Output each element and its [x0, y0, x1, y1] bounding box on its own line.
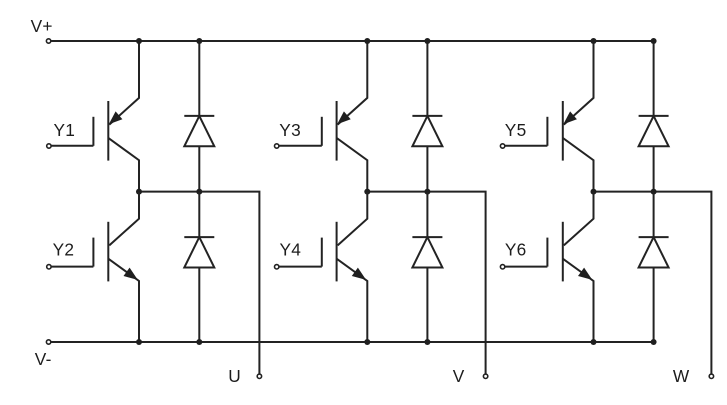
- terminal output W: [709, 374, 713, 378]
- node: V+ junction, Y5 collector column: [591, 38, 597, 44]
- transistor Y4 (lower IGBT): [322, 192, 368, 342]
- label Y1: [54, 120, 76, 140]
- svg-text:W: W: [673, 366, 690, 386]
- node: junction U-phase at diode column: [196, 189, 202, 195]
- diode D4 (lower freewheel): [412, 192, 442, 342]
- terminal gate Y2: [47, 265, 51, 269]
- wire: gate lead Y6: [504, 266, 547, 268]
- terminal V-: [46, 340, 50, 344]
- transistor Y6 (lower IGBT): [547, 192, 593, 342]
- svg-text:Y6: Y6: [505, 240, 527, 260]
- node: V- junction, D4 column: [424, 339, 430, 345]
- terminal gate Y3: [275, 144, 279, 148]
- node: V+ junction, D5 column: [651, 38, 657, 44]
- terminal V+: [46, 39, 50, 43]
- node: junction W-phase at collector column: [591, 189, 597, 195]
- label Y6: [505, 240, 527, 260]
- svg-text:V+: V+: [31, 16, 53, 36]
- node: V+ junction, Y3 collector column: [364, 38, 370, 44]
- node: junction U-phase at collector column: [136, 189, 142, 195]
- wire: gate lead Y5: [504, 145, 547, 147]
- terminal gate Y4: [275, 265, 279, 269]
- label Y2: [53, 240, 75, 260]
- label Y5: [505, 120, 527, 140]
- terminal output U: [257, 374, 261, 378]
- diode D5 (upper freewheel): [639, 41, 669, 192]
- svg-text:V-: V-: [35, 349, 52, 369]
- transistor Y5 (upper IGBT): [547, 41, 593, 192]
- wire: gate lead Y4: [279, 266, 322, 268]
- node: V- junction, Y4 emitter column: [364, 339, 370, 345]
- terminal output V: [483, 374, 487, 378]
- wire: phase node to output U: [139, 192, 259, 375]
- terminal gate Y5: [500, 144, 504, 148]
- svg-text:Y4: Y4: [280, 240, 302, 260]
- svg-text:U: U: [228, 366, 241, 386]
- svg-text:Y3: Y3: [279, 120, 301, 140]
- node: V- junction, Y6 emitter column: [591, 339, 597, 345]
- node: V- junction, D2 column: [196, 339, 202, 345]
- label V-: [35, 349, 52, 369]
- transistor Y1 (upper IGBT): [93, 41, 139, 192]
- wire: V+ power rail: [51, 40, 655, 42]
- svg-text:Y1: Y1: [54, 120, 76, 140]
- diode D6 (lower freewheel): [639, 192, 669, 342]
- node: V- junction, Y2 emitter column: [136, 339, 142, 345]
- diode D3 (upper freewheel): [412, 41, 442, 192]
- svg-text:Y5: Y5: [505, 120, 527, 140]
- node: V+ junction, Y1 collector column: [136, 38, 142, 44]
- wire: V- power rail: [51, 341, 655, 343]
- transistor Y3 (upper IGBT): [322, 41, 368, 192]
- label W: [673, 366, 690, 386]
- label Y3: [279, 120, 301, 140]
- node: junction V-phase at diode column: [424, 189, 430, 195]
- terminal gate Y1: [47, 144, 51, 148]
- wire: gate lead Y1: [51, 145, 94, 147]
- wire: gate lead Y3: [279, 145, 322, 147]
- label Y4: [280, 240, 302, 260]
- wire: phase node to output V: [367, 192, 485, 375]
- node: junction V-phase at collector column: [364, 189, 370, 195]
- node: V+ junction, D1 column: [196, 38, 202, 44]
- node: V+ junction, D3 column: [424, 38, 430, 44]
- wire: gate lead Y2: [51, 266, 94, 268]
- wire: phase node to output W: [594, 192, 712, 375]
- transistor Y2 (lower IGBT): [93, 192, 139, 342]
- node: junction W-phase at diode column: [651, 189, 657, 195]
- label V+: [31, 16, 53, 36]
- label U: [228, 366, 241, 386]
- label V: [453, 366, 465, 386]
- terminal gate Y6: [500, 265, 504, 269]
- diode D1 (upper freewheel): [184, 41, 214, 192]
- svg-text:V: V: [453, 366, 465, 386]
- node: V- junction, D6 column: [651, 339, 657, 345]
- svg-text:Y2: Y2: [53, 240, 75, 260]
- diode D2 (lower freewheel): [184, 192, 214, 342]
